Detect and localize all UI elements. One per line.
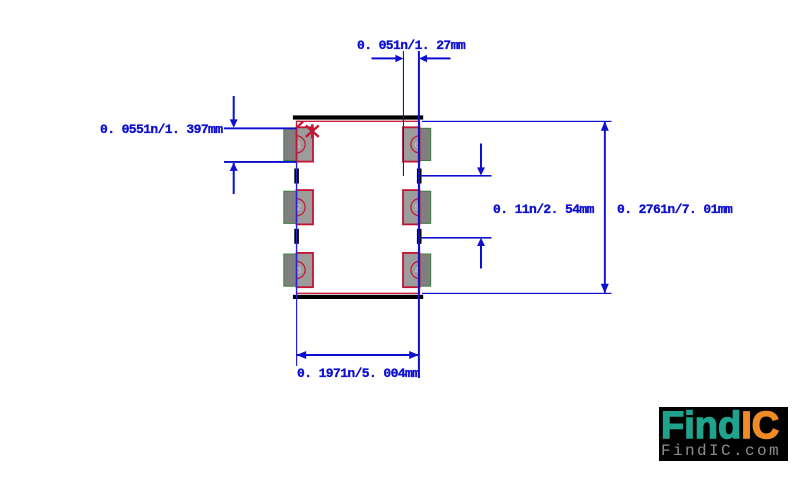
- dim middle line upper: [421, 175, 492, 177]
- silkscreen dash left lower: [294, 229, 299, 244]
- dim right extension line upper: [422, 121, 612, 122]
- dim left label: [100, 122, 223, 137]
- dim top arrow right: [419, 55, 451, 63]
- dim middle line lower: [421, 237, 492, 239]
- svg-text:0. 2761n/7. 01mm: 0. 2761n/7. 01mm: [617, 202, 733, 217]
- pad 2: [284, 190, 313, 224]
- pin 1 asterisk marker: [306, 124, 319, 138]
- FindIC.com text: [661, 442, 781, 460]
- pin-1 chamfer: [297, 121, 303, 127]
- silkscreen dash left upper: [294, 169, 299, 184]
- dim top label: [357, 38, 466, 53]
- silkscreen dash right lower: [417, 229, 422, 244]
- silkscreen dash right upper: [417, 169, 422, 184]
- dim bottom line with arrows: [297, 351, 419, 359]
- svg-text:3: 3: [297, 266, 302, 275]
- dim left arrow upper: [230, 96, 238, 128]
- pad 6: [403, 127, 431, 161]
- body outline: [297, 121, 420, 293]
- dim middle arrow lower: [477, 238, 485, 269]
- FindIC logo box: [659, 407, 788, 461]
- svg-text:0. 1971n/5. 004mm: 0. 1971n/5. 004mm: [297, 366, 420, 381]
- svg-text:0. 0551n/1. 397mm: 0. 0551n/1. 397mm: [100, 122, 223, 137]
- dim right label: [617, 202, 733, 217]
- pad 5: [403, 190, 431, 224]
- dim top extension line left (thin): [403, 51, 404, 176]
- dim bottom extension line left: [296, 162, 297, 366]
- svg-text:2: 2: [297, 203, 302, 212]
- dim middle label: [493, 202, 595, 217]
- pad 1: [284, 127, 313, 161]
- dim top extension line right (long): [418, 51, 420, 378]
- dim middle arrow upper: [477, 144, 485, 176]
- FindIC logo text: [661, 408, 788, 444]
- pad 4: [403, 253, 431, 287]
- svg-text:1: 1: [297, 140, 302, 149]
- silkscreen bottom bar: [293, 295, 423, 299]
- svg-text:0. 11n/2. 54mm: 0. 11n/2. 54mm: [493, 202, 595, 217]
- dim left arrow lower: [230, 163, 238, 194]
- dim right extension line lower: [422, 293, 612, 294]
- silkscreen top bar: [293, 115, 423, 119]
- pad 3: [284, 253, 313, 287]
- dim right vertical with arrows: [601, 121, 609, 293]
- dim left line lower: [224, 161, 297, 163]
- svg-text:0. 051n/1. 27mm: 0. 051n/1. 27mm: [357, 38, 466, 53]
- dim left line upper: [224, 127, 297, 129]
- dim bottom label: [297, 366, 420, 381]
- dim top arrow left: [372, 55, 404, 63]
